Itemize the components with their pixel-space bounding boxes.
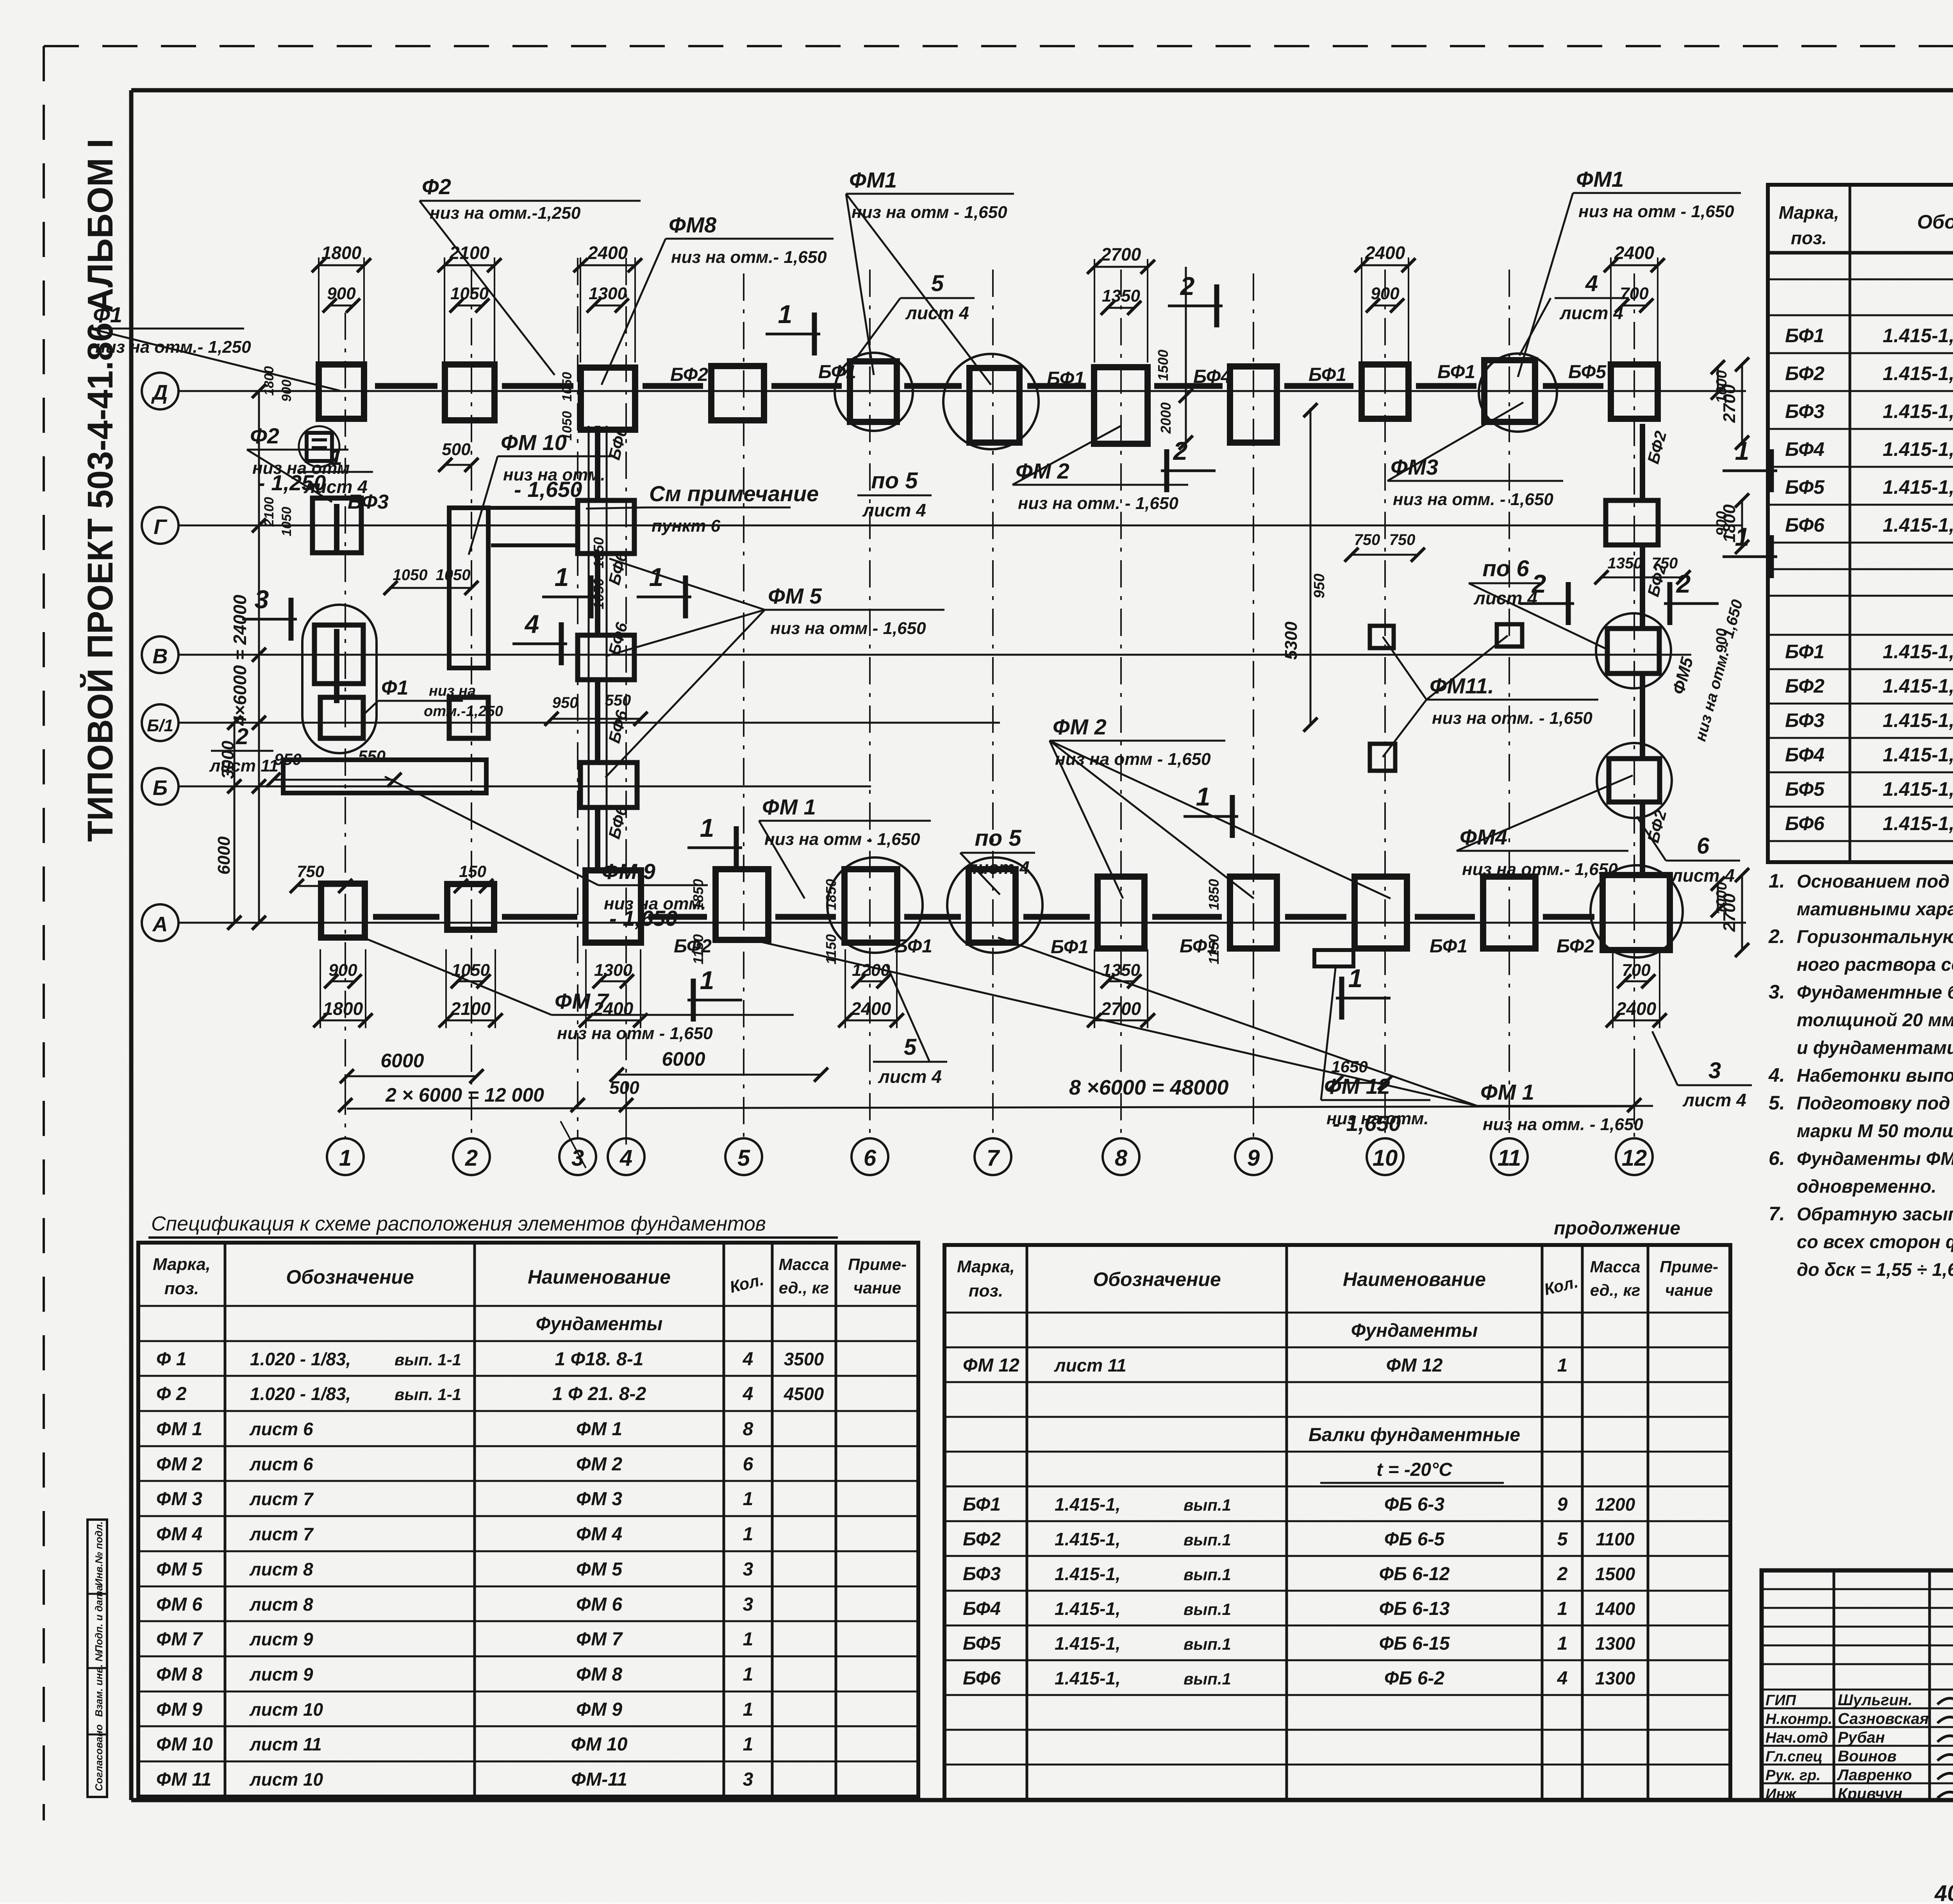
svg-text:лист 4: лист 4	[862, 500, 926, 520]
svg-text:1.415-1,: 1.415-1,	[1883, 325, 1953, 347]
FM12 small footing	[1314, 950, 1353, 966]
svg-text:1050: 1050	[560, 372, 575, 402]
svg-text:Инж: Инж	[1766, 1786, 1797, 1802]
outer dashed border	[44, 45, 1953, 47]
svg-text:Ф2: Ф2	[422, 174, 451, 199]
svg-text:пункт 6: пункт 6	[652, 516, 721, 536]
svg-text:2: 2	[236, 724, 248, 749]
svg-text:t = -20°C: t = -20°C	[1376, 1459, 1453, 1480]
svg-text:550: 550	[605, 692, 631, 709]
svg-text:ФМ 1: ФМ 1	[156, 1419, 202, 1440]
svg-text:550: 550	[358, 747, 386, 765]
svg-text:низ на отм.- 1,250: низ на отм.- 1,250	[95, 338, 251, 357]
svg-text:ФМ 10: ФМ 10	[501, 430, 567, 455]
svg-text:8 ×6000 = 48000: 8 ×6000 = 48000	[1069, 1076, 1228, 1099]
svg-text:1500: 1500	[1155, 350, 1171, 381]
svg-text:1050: 1050	[450, 284, 489, 303]
axis letter circles	[142, 373, 179, 409]
svg-text:2400: 2400	[587, 243, 628, 263]
svg-text:1: 1	[330, 445, 342, 470]
svg-text:1200: 1200	[1595, 1494, 1635, 1515]
svg-text:1: 1	[1735, 436, 1749, 465]
svg-text:Взам. инв. №: Взам. инв. №	[93, 1650, 105, 1717]
svg-text:до δск = 1,55 ÷ 1,6 Т/м³.: до δск = 1,55 ÷ 1,6 Т/м³.	[1797, 1259, 1953, 1280]
svg-text:2400: 2400	[851, 998, 891, 1019]
svg-text:ФБ 6-13: ФБ 6-13	[1379, 1599, 1450, 1619]
svg-text:6000: 6000	[662, 1048, 705, 1070]
svg-text:1800: 1800	[321, 243, 362, 263]
svg-text:ФМ 2: ФМ 2	[576, 1454, 622, 1475]
FM9 strip footing	[283, 760, 486, 793]
svg-text:лист 4: лист 4	[878, 1066, 942, 1087]
bottom dimension chains	[331, 981, 355, 982]
svg-text:1.415-1,: 1.415-1,	[1055, 1564, 1121, 1584]
svg-text:1050: 1050	[436, 566, 471, 584]
svg-text:3: 3	[1708, 1058, 1721, 1083]
svg-text:отм.-1,250: отм.-1,250	[424, 703, 503, 720]
svg-text:1: 1	[1557, 1355, 1568, 1376]
svg-text:1: 1	[1348, 964, 1363, 993]
svg-text:БФ2: БФ2	[1557, 936, 1594, 957]
svg-text:БФ4: БФ4	[1785, 438, 1824, 460]
svg-text:900: 900	[328, 961, 357, 980]
svg-text:ТИПОВОЙ ПРОЕКТ 503-4-41.86: ТИПОВОЙ ПРОЕКТ 503-4-41.86 АЛЬБОМ I	[80, 139, 120, 842]
svg-text:Сазновская: Сазновская	[1838, 1710, 1929, 1727]
svg-text:низ на отм - 1,650: низ на отм - 1,650	[1578, 202, 1734, 221]
svg-text:БФ2: БФ2	[1785, 363, 1824, 384]
svg-text:6: 6	[1697, 833, 1710, 859]
svg-text:ФМ 4: ФМ 4	[576, 1524, 622, 1545]
svg-text:4×6000 = 24000: 4×6000 = 24000	[230, 595, 250, 726]
svg-text:1.415-1,: 1.415-1,	[1883, 675, 1953, 697]
svg-text:поз.: поз.	[969, 1281, 1003, 1300]
svg-text:4500: 4500	[784, 1384, 824, 1404]
svg-text:- 1,650: - 1,650	[1333, 1111, 1401, 1136]
svg-text:3: 3	[743, 1559, 753, 1580]
svg-text:ед., кг: ед., кг	[779, 1279, 829, 1297]
svg-text:Рук. гр.: Рук. гр.	[1766, 1767, 1821, 1784]
bottom-right spec table	[944, 1245, 1730, 1800]
svg-text:- 1,650: - 1,650	[609, 906, 677, 931]
svg-text:6000: 6000	[380, 1050, 424, 1072]
svg-text:Наименование: Наименование	[1343, 1268, 1486, 1290]
svg-text:8: 8	[743, 1419, 753, 1440]
svg-text:ФМ 3: ФМ 3	[156, 1489, 202, 1509]
svg-text:ФМ 1: ФМ 1	[576, 1419, 622, 1440]
detail circles row D	[835, 353, 913, 431]
svg-text:4: 4	[619, 1145, 632, 1171]
svg-text:Ф2: Ф2	[250, 423, 279, 448]
svg-text:БФ2: БФ2	[674, 936, 712, 957]
svg-text:2.: 2.	[1768, 925, 1785, 947]
svg-text:1: 1	[1557, 1633, 1568, 1654]
svg-text:ФМ 9: ФМ 9	[602, 859, 655, 884]
svg-text:по 5: по 5	[975, 825, 1021, 851]
left vertical dimension chain	[258, 391, 260, 923]
foundation footings row V	[314, 625, 363, 684]
svg-text:4: 4	[1585, 271, 1598, 296]
svg-text:1.415-1,: 1.415-1,	[1883, 363, 1953, 384]
svg-text:7: 7	[987, 1145, 1000, 1171]
svg-text:1300: 1300	[594, 961, 632, 980]
svg-text:и фундаментами забить бе: и фундаментами забить бетоном марки М 15…	[1797, 1037, 1953, 1058]
svg-text:БФ3: БФ3	[1785, 709, 1824, 731]
svg-text:лист 4: лист 4	[1559, 303, 1623, 323]
svg-text:БФ6: БФ6	[1785, 813, 1825, 834]
svg-text:6: 6	[743, 1454, 753, 1475]
svg-text:500: 500	[609, 1077, 639, 1098]
svg-text:лист 9: лист 9	[249, 1629, 313, 1649]
svg-text:1300: 1300	[1595, 1633, 1635, 1654]
svg-text:Спецификация к схеме распол: Спецификация к схеме расположения элемен…	[151, 1213, 766, 1235]
svg-text:лист 4: лист 4	[1671, 865, 1735, 886]
svg-text:См примечание: См примечание	[649, 481, 819, 506]
svg-text:4.: 4.	[1768, 1064, 1785, 1086]
svg-text:4: 4	[743, 1384, 753, 1404]
svg-text:ФМ1: ФМ1	[1576, 167, 1624, 191]
svg-text:Б/1: Б/1	[147, 716, 173, 735]
svg-text:1 Ф 21. 8-2: 1 Ф 21. 8-2	[552, 1384, 646, 1404]
svg-text:1.415-1,: 1.415-1,	[1883, 514, 1953, 536]
svg-text:400391- 01: 400391- 01	[1934, 1877, 1953, 1902]
svg-text:ФМ 12: ФМ 12	[1386, 1355, 1443, 1376]
svg-text:1.415-1,: 1.415-1,	[1883, 476, 1953, 498]
svg-text:лист 6: лист 6	[249, 1454, 313, 1474]
svg-text:1: 1	[743, 1699, 753, 1720]
svg-text:1: 1	[1196, 782, 1210, 811]
svg-text:1: 1	[743, 1664, 753, 1685]
svg-text:2100: 2100	[262, 497, 277, 527]
svg-text:лист 11: лист 11	[209, 756, 278, 775]
vertical beam axis 12	[1640, 424, 1645, 499]
svg-text:низ на отм. - 1,650: низ на отм. - 1,650	[1393, 490, 1553, 509]
svg-text:лист 7: лист 7	[249, 1489, 314, 1509]
foundation footings row G	[312, 498, 361, 553]
svg-text:1: 1	[700, 813, 714, 842]
svg-text:ного раствора состава 1:2: ного раствора состава 1:2 толщиной 30 мм…	[1797, 954, 1953, 975]
svg-text:750: 750	[297, 862, 324, 881]
svg-text:Гл.спец: Гл.спец	[1766, 1749, 1823, 1765]
svg-text:чание: чание	[1665, 1281, 1713, 1299]
svg-text:низ на: низ на	[429, 683, 476, 699]
svg-text:чание: чание	[853, 1279, 901, 1297]
svg-text:1300: 1300	[589, 284, 627, 303]
svg-text:2400: 2400	[1365, 243, 1405, 263]
svg-text:2: 2	[1676, 569, 1691, 598]
vertical beam axis 3/4 column	[595, 426, 600, 500]
svg-text:1: 1	[743, 1734, 753, 1755]
svg-text:В: В	[153, 645, 168, 668]
svg-text:БФ1: БФ1	[1051, 937, 1089, 957]
svg-text:1: 1	[555, 563, 569, 591]
svg-text:ФМ 5: ФМ 5	[768, 584, 822, 608]
svg-text:марки М 50 толщиной 1: марки М 50 толщиной 100 мм.	[1797, 1120, 1953, 1141]
svg-text:1850: 1850	[823, 879, 839, 910]
svg-text:БФ6: БФ6	[963, 1668, 1001, 1689]
svg-text:1: 1	[700, 966, 714, 995]
svg-text:вып.1: вып.1	[1184, 1496, 1231, 1514]
svg-text:2100: 2100	[450, 998, 491, 1019]
svg-text:1.415-1,: 1.415-1,	[1883, 438, 1953, 460]
svg-text:лист 4: лист 4	[303, 477, 368, 497]
svg-text:БФ1: БФ1	[1785, 641, 1824, 663]
svg-text:лист 9: лист 9	[249, 1664, 313, 1684]
svg-text:низ на отм. - 1,650: низ на отм. - 1,650	[1483, 1115, 1643, 1134]
svg-text:Инв.№ подл.: Инв.№ подл.	[93, 1521, 105, 1586]
svg-text:БФ2: БФ2	[963, 1529, 1001, 1550]
svg-text:1 Ф18. 8-1: 1 Ф18. 8-1	[555, 1349, 644, 1370]
svg-text:1: 1	[1557, 1599, 1568, 1619]
svg-text:500: 500	[442, 440, 471, 459]
svg-text:ФМ 12: ФМ 12	[963, 1355, 1019, 1376]
svg-text:750: 750	[1389, 531, 1416, 548]
svg-text:Ф 2: Ф 2	[156, 1384, 187, 1404]
svg-text:Обратную засыпку пазух п: Обратную засыпку пазух производить местн…	[1797, 1204, 1953, 1224]
svg-text:2400: 2400	[1614, 243, 1655, 263]
svg-text:Воинов: Воинов	[1838, 1748, 1897, 1765]
svg-text:Н.контр.: Н.контр.	[1766, 1711, 1832, 1727]
svg-text:3: 3	[255, 585, 269, 614]
svg-text:БФ2: БФ2	[670, 364, 708, 385]
svg-text:БФ1: БФ1	[1180, 936, 1218, 957]
svg-text:Ф 1: Ф 1	[156, 1349, 187, 1370]
oval detail on axis 1	[302, 605, 377, 753]
svg-text:1050: 1050	[393, 566, 428, 584]
svg-text:Г: Г	[154, 515, 168, 539]
svg-text:низ на отм - 1,650: низ на отм - 1,650	[557, 1024, 713, 1043]
svg-text:Обозначение: Обозначение	[286, 1266, 414, 1288]
svg-text:вып. 1-1: вып. 1-1	[395, 1385, 461, 1404]
svg-text:ФМ 10: ФМ 10	[156, 1734, 213, 1755]
svg-text:5: 5	[1557, 1529, 1568, 1550]
svg-text:1.415-1,: 1.415-1,	[1883, 641, 1953, 663]
svg-text:Д: Д	[151, 381, 168, 404]
title block	[1762, 1570, 1953, 1800]
svg-text:1850: 1850	[1206, 879, 1222, 910]
svg-text:вып.1: вып.1	[1184, 1635, 1231, 1653]
svg-text:ФМ-11: ФМ-11	[571, 1769, 627, 1790]
vertical beam axis 1 (BF3)	[334, 504, 339, 551]
svg-text:поз.: поз.	[164, 1279, 199, 1298]
svg-text:ФМ 9: ФМ 9	[576, 1699, 622, 1720]
top-right specification table (beams)	[1768, 185, 1953, 862]
svg-text:БФ5: БФ5	[1785, 476, 1825, 498]
svg-text:Шульгин.: Шульгин.	[1838, 1691, 1912, 1709]
main frame	[131, 88, 1953, 93]
horizontal axis lines	[179, 390, 1746, 392]
top dimension chains	[319, 264, 364, 266]
svg-text:по 5: по 5	[871, 468, 918, 493]
svg-text:ФМ 9: ФМ 9	[156, 1699, 202, 1720]
svg-text:Б: Б	[153, 776, 168, 800]
svg-text:низ на отм - 1,650: низ на отм - 1,650	[852, 203, 1007, 222]
svg-text:1300: 1300	[1595, 1668, 1635, 1688]
svg-text:1500: 1500	[1595, 1564, 1635, 1584]
svg-text:5: 5	[904, 1034, 917, 1060]
axis number circles 1-12	[327, 1138, 364, 1175]
svg-text:Фундаментные балки, уклады: Фундаментные балки, укладывать на слой ц…	[1797, 982, 1953, 1002]
svg-text:1.020 - 1/83,: 1.020 - 1/83,	[250, 1384, 351, 1404]
overall bottom dimensions	[347, 1075, 477, 1077]
svg-text:8: 8	[1115, 1145, 1128, 1171]
foundation footings row A	[321, 884, 365, 938]
svg-text:низ на отм. - 1,650: низ на отм. - 1,650	[1432, 709, 1592, 728]
svg-text:1.415-1,: 1.415-1,	[1055, 1494, 1121, 1515]
svg-text:толщиной 20 мм. Зазоры м: толщиной 20 мм. Зазоры между торцами фун…	[1797, 1009, 1953, 1030]
svg-text:ФМ 8: ФМ 8	[576, 1664, 622, 1685]
svg-text:1100: 1100	[1596, 1529, 1635, 1549]
detail square node	[307, 433, 332, 461]
svg-text:Нач.отд: Нач.отд	[1766, 1730, 1828, 1746]
svg-text:БФ4: БФ4	[1193, 366, 1231, 387]
svg-text:ГИП: ГИП	[1766, 1692, 1796, 1709]
svg-text:700: 700	[1620, 284, 1649, 303]
svg-text:БФ2: БФ2	[1785, 675, 1824, 697]
svg-text:БФ4: БФ4	[1785, 744, 1824, 766]
svg-text:Фундаменты: Фундаменты	[1351, 1320, 1478, 1341]
svg-text:БФ3: БФ3	[963, 1564, 1001, 1584]
svg-text:1350: 1350	[1608, 555, 1642, 572]
svg-text:1400: 1400	[1595, 1599, 1635, 1619]
svg-text:лист 11: лист 11	[249, 1734, 322, 1754]
svg-text:БФ3: БФ3	[1785, 400, 1824, 422]
svg-text:1: 1	[778, 300, 793, 329]
svg-text:лист 4: лист 4	[1682, 1090, 1746, 1110]
svg-text:ед., кг: ед., кг	[1590, 1281, 1641, 1299]
svg-text:Горизонтальную гидроизоляцию: Горизонтальную гидроизоляцию стен выполн…	[1797, 926, 1953, 947]
svg-text:1: 1	[743, 1489, 753, 1509]
svg-text:Основанием под фундаменты: Основанием под фундаменты служат грунты …	[1797, 871, 1953, 891]
svg-text:ФМ 10: ФМ 10	[571, 1734, 628, 1755]
bottom-left vertical mini stamp	[87, 1520, 107, 1797]
right side dims	[1717, 367, 1719, 393]
svg-text:БФ1: БФ1	[1437, 362, 1475, 382]
svg-text:3: 3	[743, 1769, 753, 1790]
svg-text:Марка,: Марка,	[153, 1255, 211, 1274]
svg-text:ФМ 5: ФМ 5	[576, 1559, 623, 1580]
svg-text:2700: 2700	[1101, 244, 1141, 264]
svg-text:ФМ8: ФМ8	[669, 213, 717, 237]
svg-text:1350: 1350	[1102, 286, 1140, 305]
svg-text:7.: 7.	[1769, 1203, 1785, 1225]
svg-text:4: 4	[524, 609, 539, 638]
svg-text:1.415-1,: 1.415-1,	[1055, 1529, 1121, 1549]
svg-text:2: 2	[1531, 569, 1546, 598]
svg-text:1: 1	[339, 1145, 352, 1171]
svg-text:2700: 2700	[1720, 384, 1739, 423]
svg-text:вып.1: вып.1	[1184, 1531, 1231, 1549]
svg-text:ФБ 6-12: ФБ 6-12	[1379, 1564, 1450, 1584]
foundation footings row B1/B	[320, 697, 363, 738]
svg-text:Набетонки выполнять из б: Набетонки выполнять из бетона марки М 15…	[1797, 1065, 1953, 1086]
svg-text:4: 4	[743, 1349, 753, 1370]
svg-text:вып. 1-1: вып. 1-1	[395, 1350, 461, 1369]
FM10 L-strip	[449, 508, 488, 668]
svg-text:ФМ 8: ФМ 8	[156, 1664, 202, 1685]
svg-text:БФ5: БФ5	[1785, 778, 1825, 800]
svg-text:2000: 2000	[1158, 402, 1174, 434]
svg-text:лист 11: лист 11	[1054, 1355, 1126, 1375]
svg-text:1050: 1050	[591, 537, 607, 568]
svg-text:Обозначение: Обозначение	[1917, 211, 1953, 233]
svg-text:950: 950	[1311, 573, 1328, 598]
svg-text:1800: 1800	[262, 366, 277, 396]
svg-text:1: 1	[743, 1629, 753, 1650]
svg-text:Ф1: Ф1	[93, 302, 122, 327]
svg-text:ФБ 6-15: ФБ 6-15	[1379, 1633, 1450, 1654]
svg-text:1: 1	[649, 563, 664, 591]
svg-text:ФМ 1: ФМ 1	[762, 795, 816, 819]
svg-text:6: 6	[864, 1145, 877, 1171]
svg-text:9: 9	[1247, 1145, 1260, 1171]
svg-text:лист 10: лист 10	[249, 1769, 323, 1790]
svg-text:вып.1: вып.1	[1184, 1670, 1231, 1688]
svg-text:продолжение: продолжение	[1554, 1218, 1680, 1239]
svg-text:2700: 2700	[1101, 998, 1141, 1019]
svg-text:10: 10	[1373, 1145, 1398, 1171]
svg-text:лист 10: лист 10	[249, 1699, 323, 1720]
svg-text:1: 1	[743, 1524, 753, 1545]
svg-text:БФ5: БФ5	[963, 1633, 1001, 1654]
beams along row D	[375, 383, 437, 389]
svg-text:6000: 6000	[214, 836, 234, 875]
svg-text:950: 950	[552, 694, 578, 711]
svg-text:БФ1: БФ1	[1785, 325, 1824, 347]
svg-text:лист 8: лист 8	[249, 1594, 313, 1615]
svg-text:Наименование: Наименование	[528, 1266, 671, 1288]
svg-text:БФ1: БФ1	[1430, 936, 1467, 957]
svg-text:ФМ 7: ФМ 7	[156, 1629, 203, 1650]
svg-text:ФМ 2: ФМ 2	[1053, 714, 1107, 739]
svg-text:1.415-1,: 1.415-1,	[1883, 778, 1953, 800]
svg-text:вып.1: вып.1	[1184, 1565, 1231, 1584]
svg-text:1.020 - 1/83,: 1.020 - 1/83,	[250, 1349, 351, 1369]
svg-text:БФ1: БФ1	[1309, 364, 1346, 385]
svg-text:1050: 1050	[279, 507, 294, 536]
svg-text:БФ4: БФ4	[963, 1599, 1001, 1619]
svg-text:2: 2	[1557, 1564, 1568, 1584]
svg-text:Марка,: Марка,	[957, 1257, 1015, 1276]
svg-text:БФ1: БФ1	[894, 936, 932, 957]
svg-text:БФ1: БФ1	[963, 1494, 1001, 1515]
svg-text:ФБ 6-3: ФБ 6-3	[1384, 1494, 1444, 1515]
svg-text:150: 150	[459, 862, 486, 881]
svg-text:700: 700	[1622, 961, 1651, 980]
svg-text:ФМ 7: ФМ 7	[576, 1629, 623, 1650]
svg-text:1.415-1,: 1.415-1,	[1055, 1668, 1121, 1688]
svg-text:ФМ 2: ФМ 2	[156, 1454, 202, 1475]
svg-text:Рубан: Рубан	[1838, 1729, 1885, 1746]
svg-text:ФМ1: ФМ1	[849, 168, 897, 192]
svg-text:750: 750	[1354, 531, 1380, 548]
svg-text:1: 1	[1735, 522, 1749, 551]
svg-text:1.415-1,: 1.415-1,	[1883, 744, 1953, 766]
svg-text:БФ1: БФ1	[1047, 368, 1085, 389]
svg-text:низ на отм. - 1,650: низ на отм. - 1,650	[1018, 494, 1178, 513]
beams along row A	[373, 914, 439, 920]
svg-text:ФБ 6-5: ФБ 6-5	[1384, 1529, 1445, 1550]
svg-text:ФМ 3: ФМ 3	[576, 1489, 622, 1509]
svg-text:Фундаменты ФМ 5 и ФМ 10: Фундаменты ФМ 5 и ФМ 10 при бетонировани…	[1797, 1148, 1953, 1169]
svg-text:низ на отм.- 1,650: низ на отм.- 1,650	[1462, 860, 1618, 879]
svg-text:ФМ 1: ФМ 1	[1480, 1080, 1534, 1104]
svg-text:низ на отм.-1,250: низ на отм.-1,250	[430, 204, 581, 223]
foundation footings row D	[319, 364, 364, 419]
svg-text:2: 2	[1180, 271, 1195, 300]
svg-text:1.415-1,: 1.415-1,	[1055, 1633, 1121, 1654]
bottom-left spec table	[138, 1243, 918, 1797]
svg-text:9: 9	[1557, 1494, 1568, 1515]
